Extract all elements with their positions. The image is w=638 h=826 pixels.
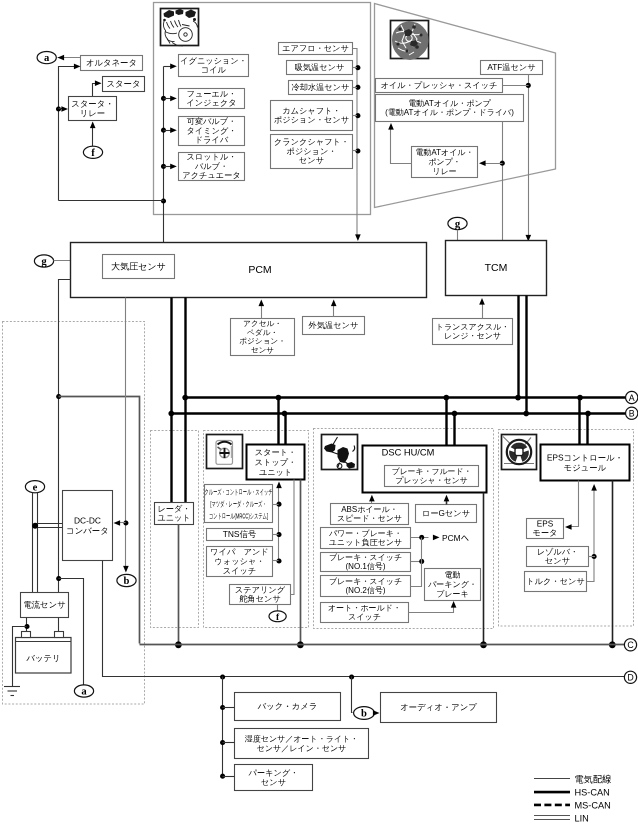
- arrowhead sensors into EPS module: [591, 484, 597, 491]
- HS-CAN drop TCM to bus B: [525, 296, 527, 414]
- stub cruise control switch: [273, 504, 279, 506]
- junction dot oil pressure switch: [526, 83, 531, 88]
- HS-CAN drop PCM to radar unit (line 1): [170, 298, 172, 503]
- bus A junction dot: [182, 395, 188, 401]
- arrowhead up into starter relay: [90, 122, 96, 129]
- steering wheel icon: [502, 435, 537, 470]
- accelerator pedal position sensor box: [231, 319, 295, 356]
- wire stub into starter relay: [59, 108, 63, 110]
- svg-text:スタータ: スタータ: [106, 79, 140, 89]
- battery double-line to connector e (right): [37, 493, 39, 593]
- radar unit dashed sub-box: [151, 431, 199, 628]
- junction dot camshaft sensor: [355, 113, 360, 118]
- svg-text:スタータ・: スタータ・: [71, 98, 113, 108]
- HS-CAN drop bus A to start-stop unit: [277, 398, 279, 445]
- arrowhead low-G into DSC: [444, 495, 450, 502]
- humidity/auto-light/rain sensor box: [235, 729, 369, 759]
- wire from alternator to connector a: [58, 57, 81, 59]
- svg-text:レゾルバ・: レゾルバ・: [537, 547, 579, 556]
- svg-text:ATF温センサ: ATF温センサ: [487, 63, 535, 72]
- wire bus D to connector b (bottom): [352, 677, 353, 713]
- wire branch into DC-DC converter: [119, 522, 126, 524]
- svg-text:コントロール(MRCC)システム]: コントロール(MRCC)システム]: [209, 513, 268, 522]
- arrowhead into throttle actuator: [170, 164, 177, 170]
- connector reference b (bottom): [354, 707, 375, 720]
- starter box: [103, 77, 145, 92]
- wire brake switch no.2 to PCM-bound wire: [411, 538, 422, 587]
- svg-text:冷却水温センサ: 冷却水温センサ: [292, 82, 350, 92]
- svg-text:e: e: [33, 482, 38, 493]
- wire EPS module to bus C: [612, 481, 614, 645]
- bus B junction dot: [452, 411, 458, 417]
- connector reference f (top): [83, 146, 102, 159]
- junction dot AT pump relay branch: [500, 161, 505, 166]
- HS-CAN bus B: [172, 412, 626, 414]
- svg-text:PCM: PCM: [248, 264, 271, 276]
- svg-text:b: b: [124, 576, 130, 587]
- cruise control switch (MRCC) box: [205, 485, 273, 523]
- wire AT pump to TCM: [502, 122, 504, 241]
- stub resolver sensor: [589, 556, 596, 558]
- wire start-stop unit to bus C: [300, 480, 302, 645]
- bus A junction dot: [577, 395, 583, 401]
- junction dot brake switch no.1: [419, 559, 424, 564]
- svg-text:湿度センサ／オート・ライト・: 湿度センサ／オート・ライト・: [245, 734, 359, 743]
- arrowhead into audio amplifier: [373, 710, 380, 716]
- PCM box: [71, 243, 427, 298]
- svg-text:(電動ATオイル・ポンプ・ドライバ): (電動ATオイル・ポンプ・ドライバ): [385, 108, 514, 117]
- svg-text:トルク・センサ: トルク・センサ: [526, 577, 584, 586]
- svg-text:ブレーキ: ブレーキ: [436, 590, 469, 599]
- bus A junction dot: [443, 395, 449, 401]
- ground symbol: [4, 687, 20, 696]
- stub humidity sensor: [223, 742, 235, 744]
- variable valve timing driver box: [179, 117, 245, 146]
- stub steering angle sensor to connector f: [277, 605, 279, 611]
- starter relay box: [69, 97, 117, 121]
- wire arm to connector a (bottom): [59, 579, 84, 685]
- wiper and washer switch box: [207, 547, 273, 577]
- legend electrical wiring sample line: [534, 778, 570, 780]
- svg-text:コイル: コイル: [201, 66, 227, 75]
- wire AT pump relay to pump: [391, 127, 412, 164]
- svg-text:レーダ・: レーダ・: [157, 504, 190, 513]
- battery box: [16, 632, 72, 674]
- svg-text:クランクシャフト・: クランクシャフト・: [274, 138, 349, 147]
- junction dot start-stop on bus C: [297, 641, 304, 648]
- EPS control module box: [541, 445, 630, 481]
- alternator box: [81, 56, 143, 71]
- junction dot crankshaft sensor: [355, 148, 360, 153]
- svg-text:C: C: [627, 640, 634, 650]
- junction dot bus-C arm: [56, 394, 61, 399]
- svg-text:ブレーキ・スイッチ: ブレーキ・スイッチ: [329, 553, 402, 562]
- HS-CAN drop bus B to EPS module: [586, 414, 588, 445]
- svg-text:電流センサ: 電流センサ: [23, 600, 65, 610]
- wire low-G sensor to DSC: [446, 499, 448, 505]
- bus B junction dot: [585, 411, 591, 417]
- junction dot parking sensor: [220, 774, 225, 779]
- feed wire switches to start-stop unit: [278, 485, 280, 561]
- svg-text:モジュール: モジュール: [564, 463, 607, 473]
- svg-text:ユニット: ユニット: [157, 514, 191, 523]
- svg-text:HS-CAN: HS-CAN: [575, 788, 610, 798]
- svg-text:ドライバ: ドライバ: [195, 136, 229, 145]
- connector reference e: [25, 481, 44, 494]
- HS-CAN drop bus A to EPS module: [578, 398, 580, 445]
- stub parking sensor: [223, 776, 235, 778]
- audio amplifier box: [381, 693, 497, 723]
- svg-text:D: D: [627, 673, 633, 683]
- junction dot on feed line at starter relay: [56, 106, 61, 111]
- svg-text:センサ: センサ: [251, 345, 274, 354]
- svg-text:f: f: [91, 148, 95, 159]
- brake switch no.2 box: [321, 576, 411, 597]
- svg-text:パーキング・: パーキング・: [248, 768, 299, 777]
- svg-text:舵角センサ: 舵角センサ: [239, 594, 281, 604]
- svg-text:ABSホイール・: ABSホイール・: [341, 505, 398, 514]
- car icon: [207, 435, 243, 469]
- battery double-line into DC-DC (bottom): [35, 527, 63, 529]
- svg-text:A: A: [629, 393, 635, 403]
- barometric pressure sensor box: [103, 255, 175, 279]
- stub crankshaft sensor: [353, 150, 358, 152]
- wire ATF sensor to TCM: [528, 75, 530, 237]
- junction dot on battery double-line: [32, 523, 38, 529]
- svg-text:[マツダ・レーダ・クルーズ・: [マツダ・レーダ・クルーズ・: [210, 499, 266, 509]
- branch wire to fuel injector: [164, 98, 171, 100]
- junction dot resolver sensor: [592, 554, 597, 559]
- svg-text:可変バルブ・: 可変バルブ・: [187, 117, 237, 126]
- transaxle icon: [391, 21, 429, 61]
- junction dot cruise switch: [276, 502, 281, 507]
- bus B junction dot: [523, 411, 529, 417]
- electric AT oil pump box: [376, 95, 524, 122]
- stub intake temp sensor: [353, 67, 358, 69]
- svg-text:バッテリ: バッテリ: [25, 653, 60, 663]
- svg-text:センサ／レイン・センサ: センサ／レイン・センサ: [257, 744, 347, 753]
- HS-CAN drop bus B to DSC: [453, 414, 455, 446]
- throttle valve actuator box: [179, 153, 245, 181]
- connector reference b (left): [117, 574, 136, 587]
- arrowhead into connector b: [123, 566, 129, 573]
- intake air temp sensor box: [287, 61, 353, 75]
- arrowhead into connector a: [58, 55, 65, 61]
- arrowhead into valve timing driver: [170, 127, 177, 133]
- svg-text:g: g: [41, 257, 47, 268]
- feed trunk wire to engine actuators and PCM: [163, 67, 165, 243]
- DC-DC converter box: [63, 491, 113, 561]
- svg-text:a: a: [81, 687, 87, 698]
- svg-text:アクチュエータ: アクチュエータ: [182, 171, 240, 180]
- low-G sensor box: [416, 505, 477, 523]
- junction dot coolant temp: [355, 85, 360, 90]
- TNS signal box: [207, 529, 273, 541]
- svg-text:オーディオ・アンプ: オーディオ・アンプ: [400, 702, 477, 712]
- junction dot audio amp branch on bus D: [349, 674, 354, 679]
- stub TNS signal: [273, 534, 279, 536]
- wire steering angle sensor to start-stop unit: [291, 480, 295, 595]
- ATF temp sensor box: [481, 61, 543, 75]
- svg-text:電動ATオイル・ポンプ: 電動ATオイル・ポンプ: [408, 99, 492, 108]
- battery/charging section dashed box: [3, 322, 145, 705]
- arrowhead range sensor into TCM: [479, 298, 485, 305]
- wire resolver/torque sensors to EPS module: [587, 487, 595, 582]
- svg-text:エアフロ・センサ: エアフロ・センサ: [282, 44, 349, 53]
- legend LIN sample double line: [534, 816, 570, 820]
- arrowhead accel sensor into PCM: [259, 300, 265, 307]
- connector reference f (bottom): [269, 611, 286, 623]
- branch wire to ignition coil: [164, 66, 171, 68]
- wire PCM-left down to current sensor: [59, 280, 71, 593]
- steering angle sensor box: [230, 585, 291, 605]
- svg-text:MS-CAN: MS-CAN: [575, 801, 611, 811]
- svg-text:DC-DC: DC-DC: [74, 515, 101, 525]
- svg-text:オルタネータ: オルタネータ: [86, 58, 137, 68]
- svg-text:a: a: [44, 53, 50, 64]
- power brake unit vacuum sensor box: [321, 528, 411, 549]
- auto hold switch box: [321, 603, 409, 623]
- arrowhead into starter: [95, 80, 102, 86]
- bus reference circle B: [626, 407, 638, 419]
- junction dot ground branch: [24, 624, 29, 629]
- wire vacuum sensor toward PCM: [411, 537, 429, 539]
- svg-text:PCMへ: PCMへ: [442, 533, 469, 543]
- current sensor box: [21, 593, 69, 618]
- arrowhead up into start-stop unit: [276, 482, 282, 489]
- EPS motor box: [527, 519, 564, 539]
- junction dot DSC on bus C: [480, 641, 487, 648]
- wire branch to AT pump relay: [485, 163, 503, 165]
- svg-text:ストップ・: ストップ・: [255, 458, 297, 467]
- junction dot connector-a arm: [56, 576, 61, 581]
- ambient temp sensor box: [303, 317, 365, 335]
- svg-text:パーキング・: パーキング・: [427, 580, 477, 589]
- svg-text:電動: 電動: [445, 571, 461, 580]
- junction dot EPS on bus C: [609, 641, 616, 648]
- svg-text:スロットル・: スロットル・: [186, 153, 236, 162]
- svg-text:センサ: センサ: [261, 778, 286, 787]
- wire starter-relay to starter: [93, 84, 101, 97]
- electric AT oil pump relay box: [412, 147, 478, 178]
- junction dot intake temp: [355, 65, 360, 70]
- bus A junction dot: [276, 395, 282, 401]
- arrowhead into AT pump relay: [479, 160, 486, 166]
- junction dot PCM-bound wire: [419, 535, 424, 540]
- wire EPS module to EPS motor: [569, 481, 579, 527]
- svg-text:バック・カメラ: バック・カメラ: [257, 701, 318, 711]
- svg-text:プレッシャ・センサ: プレッシャ・センサ: [395, 476, 468, 485]
- junction dot valve timing branch: [161, 128, 166, 133]
- transaxle range sensor box: [433, 319, 513, 345]
- svg-text:トランスアクスル・: トランスアクスル・: [436, 322, 510, 331]
- connector reference g (right): [448, 217, 467, 230]
- arrowhead into parking brake: [451, 601, 457, 608]
- svg-text:フューエル・: フューエル・: [187, 89, 237, 98]
- svg-text:ワイパ アンド: ワイパ アンド: [210, 548, 268, 557]
- svg-text:b: b: [361, 709, 367, 720]
- svg-text:大気圧センサ: 大気圧センサ: [111, 261, 166, 271]
- svg-text:ウォッシャ・: ウォッシャ・: [214, 557, 264, 566]
- HS-CAN drop TCM to bus A: [517, 296, 519, 398]
- sensor trunk wire to PCM: [353, 49, 358, 237]
- svg-text:ブレーキ・スイッチ: ブレーキ・スイッチ: [329, 577, 402, 586]
- svg-text:EPSコントロール・: EPSコントロール・: [547, 452, 623, 462]
- bus reference circle C: [624, 639, 636, 651]
- svg-text:オイル・プレッシャ・スイッチ: オイル・プレッシャ・スイッチ: [381, 81, 498, 90]
- brake switch no.1 box: [321, 553, 411, 572]
- branch wire to valve timing driver: [164, 130, 171, 132]
- arrowhead into DC-DC converter: [114, 520, 121, 526]
- TCM box: [446, 241, 547, 296]
- connector reference a (top): [37, 52, 56, 65]
- arrowhead up into AT pump: [388, 123, 394, 130]
- wire accel pedal sensor to PCM: [261, 303, 263, 319]
- arrowhead ABS into DSC: [369, 495, 375, 502]
- engine compartment outline box: [154, 3, 371, 215]
- junction dot TNS: [276, 532, 281, 537]
- HS-CAN drop bus B to start-stop unit: [284, 414, 286, 445]
- svg-text:DSC HU/CM: DSC HU/CM: [382, 448, 435, 458]
- svg-text:オート・ホールド・: オート・ホールド・: [328, 603, 401, 612]
- HS-CAN bus A: [186, 396, 626, 398]
- svg-text:g: g: [455, 219, 461, 230]
- svg-text:電気配線: 電気配線: [575, 774, 612, 785]
- HS-CAN drop bus A to DSC: [445, 398, 447, 446]
- arrowhead into PCM top: [355, 234, 361, 241]
- brake unit icon: [322, 435, 358, 470]
- wire current sensor to battery plus: [58, 618, 60, 633]
- coolant temp sensor box: [289, 81, 353, 95]
- brake fluid pressure sensor box: [385, 466, 479, 487]
- arrowhead into alternator: [74, 64, 81, 70]
- legend HS-CAN sample line: [534, 791, 570, 794]
- engine icon: [161, 9, 199, 47]
- arrowhead into EPS motor: [565, 524, 572, 530]
- svg-text:スタート・: スタート・: [255, 448, 297, 457]
- svg-text:スピード・センサ: スピード・センサ: [337, 514, 402, 523]
- svg-text:TCM: TCM: [485, 262, 508, 274]
- wire radar unit to bus C: [178, 525, 180, 645]
- bus D wire from DC-DC converter: [103, 561, 625, 677]
- stub connector b to audio amp: [375, 712, 376, 714]
- stub coolant temp sensor: [353, 87, 358, 89]
- ignition coil box: [179, 55, 249, 77]
- crankshaft position sensor box: [271, 135, 353, 169]
- back camera box: [235, 693, 341, 721]
- DSC HU/CM box: [363, 446, 487, 493]
- svg-text:バルブ・: バルブ・: [194, 162, 228, 171]
- wire transaxle range sensor to TCM: [482, 301, 484, 319]
- wire ambient temp sensor to PCM: [333, 303, 335, 317]
- junction dot fuel injector branch: [161, 96, 166, 101]
- svg-text:外気温センサ: 外気温センサ: [308, 321, 359, 330]
- junction dot feed-line / alternator-group link: [161, 198, 166, 203]
- parking sensor box: [235, 765, 313, 791]
- wire PCM to DC-DC / connector b: [125, 298, 127, 569]
- legend MS-CAN sample line: [534, 804, 570, 807]
- svg-text:EPS: EPS: [537, 519, 554, 528]
- wire linking alternator group to feed trunk: [59, 200, 164, 202]
- svg-text:モータ: モータ: [533, 529, 558, 538]
- bus C wire: [140, 644, 625, 646]
- arrowhead into fuel injector: [170, 96, 177, 102]
- svg-text:ポンプ・: ポンプ・: [428, 158, 461, 167]
- junction dot humidity sensor: [220, 740, 225, 745]
- arrowhead into ignition coil: [170, 64, 177, 70]
- wire arm from PCM line to bus C: [59, 397, 140, 644]
- HS-CAN drop PCM to radar unit (line 2): [184, 298, 186, 503]
- svg-text:LIN: LIN: [575, 814, 589, 824]
- bus reference circle A: [626, 391, 638, 403]
- svg-text:スイッチ: スイッチ: [223, 566, 257, 575]
- bus B junction dot: [168, 411, 174, 417]
- wire DSC to bus C: [483, 493, 485, 645]
- wire auto hold switch to parking brake: [409, 605, 454, 613]
- stub from connector g to PCM: [54, 260, 71, 262]
- arrowhead toward PCM label: [433, 535, 440, 541]
- wire brake switch no.1 to PCM-bound wire: [411, 561, 422, 563]
- wire from connector f to starter relay: [92, 123, 94, 147]
- svg-text:ユニット負圧センサ: ユニット負圧センサ: [329, 538, 402, 547]
- arrowhead into starter relay: [61, 106, 68, 112]
- battery double-line to connector e (left): [32, 493, 34, 593]
- svg-text:電動ATオイル・: 電動ATオイル・: [415, 148, 473, 157]
- svg-text:ポジション・センサ: ポジション・センサ: [274, 116, 349, 125]
- svg-text:センサ: センサ: [545, 557, 570, 566]
- junction dot DC-DC branch: [123, 520, 128, 525]
- battery double-line into DC-DC (top): [35, 523, 63, 525]
- junction dot bottom feeder on bus D: [220, 674, 225, 679]
- start-stop unit box: [247, 445, 305, 480]
- svg-text:イグニッション・: イグニッション・: [180, 56, 247, 65]
- svg-text:ローGセンサ: ローGセンサ: [422, 509, 470, 518]
- radar unit box: [155, 503, 194, 525]
- svg-text:アクセル・: アクセル・: [243, 319, 282, 328]
- wire ABS sensor to DSC: [371, 499, 373, 504]
- DSC dashed sub-box: [314, 429, 494, 629]
- svg-text:スイッチ: スイッチ: [348, 613, 381, 622]
- stub from connector g to TCM: [457, 230, 459, 241]
- svg-text:ユニット: ユニット: [259, 468, 293, 477]
- svg-text:レンジ・センサ: レンジ・センサ: [444, 332, 501, 341]
- bus reference circle D: [624, 671, 636, 683]
- svg-text:吸気温センサ: 吸気温センサ: [295, 63, 345, 72]
- stub oil pressure switch: [503, 85, 529, 87]
- torque sensor box: [525, 572, 587, 592]
- svg-text:センサ: センサ: [299, 156, 324, 165]
- svg-text:カムシャフト・: カムシャフト・: [282, 106, 340, 115]
- oil pressure switch box: [376, 79, 503, 93]
- fuel injector box: [179, 89, 245, 109]
- ground wire from battery: [13, 627, 27, 687]
- stub wiper switch: [273, 560, 279, 562]
- transmission compartment outline (trapezoid): [375, 4, 556, 208]
- svg-text:B: B: [629, 409, 635, 419]
- svg-text:タイミング・: タイミング・: [186, 126, 236, 135]
- svg-text:(NO.1信号): (NO.1信号): [346, 562, 386, 571]
- svg-text:(NO.2信号): (NO.2信号): [346, 586, 386, 595]
- junction dot radar on bus C: [175, 641, 182, 648]
- svg-text:ブレーキ・フルード・: ブレーキ・フルード・: [391, 467, 471, 476]
- ABS wheel speed sensor box: [331, 504, 409, 525]
- connector reference a (bottom): [74, 685, 93, 698]
- arrowhead ambient sensor into PCM: [331, 300, 337, 307]
- svg-text:リレー: リレー: [80, 108, 106, 118]
- camshaft position sensor box: [271, 101, 353, 131]
- wire current sensor to battery minus: [26, 618, 28, 633]
- electric parking brake box: [425, 569, 481, 601]
